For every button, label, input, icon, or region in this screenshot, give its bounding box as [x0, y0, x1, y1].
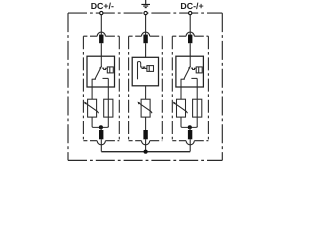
ground (earth symbol above middle terminal) [141, 0, 150, 8]
crossover arc bottom branch 2 [142, 141, 150, 145]
disconnector F2.1 (thermal disconnect, branch 2 top) [143, 35, 147, 44]
enclosure right border (dash-dot) [221, 13, 223, 160]
linkage S1 to indicator [102, 68, 107, 69]
module box 2 middle branch (dash-dot) [129, 36, 163, 141]
wire branch 2 to bus [145, 139, 147, 151]
switch S1 contacts and blade inside U1 [92, 56, 109, 79]
enclosure left border (dash-dot) [67, 13, 69, 160]
svg-text:DC+/-: DC+/- [91, 1, 114, 11]
wire switch to varistor branch 2 [145, 86, 147, 99]
junction node branch 1 [99, 125, 103, 129]
fuse F3 (branch 3 backup element) [193, 78, 202, 127]
linkage S2 to indicator [141, 65, 147, 69]
switch box U3 (branch 3 disconnecting device) [176, 56, 204, 87]
crossover arc top branch 3 [186, 32, 194, 36]
wire disconnector to switch box 2 [145, 43, 147, 57]
wire terminal X1 to branch 1 [100, 15, 102, 35]
wire terminal X2 to branch 2 [145, 15, 147, 35]
enclosure top border (dash-dot) [68, 12, 222, 14]
bus wire (common bottom connection) [101, 151, 190, 153]
varistor RV2 arrow head [138, 102, 141, 105]
varistor RV1 arrow head [84, 102, 87, 105]
wire disconnector to switch box 3 [189, 43, 191, 56]
junction node branch 3 [188, 125, 192, 129]
wire switch to varistor branch 3 [180, 79, 182, 99]
module box 1 left branch (dash-dot) [83, 36, 119, 141]
wire varistor to disconnector branch 2 [145, 117, 147, 130]
indicator P1 (status indication contact) [107, 67, 113, 73]
crossover arc bottom branch 3 [186, 141, 194, 145]
switch box U1 (branch 1 disconnecting device) [87, 56, 115, 87]
disconnector F1.2 (branch 1 bottom) [99, 130, 103, 139]
enclosure bottom border (dash-dot) [68, 159, 222, 161]
terminal X2 earth [144, 11, 147, 14]
crossover arc bottom branch 1 [97, 141, 105, 145]
disconnector F1.1 (thermal disconnect, branch 1 top) [99, 35, 103, 44]
terminal X1 DC+/- [100, 11, 103, 14]
terminal X3 DC-/+ [189, 11, 192, 14]
wire disconnector to switch box 1 [100, 43, 102, 56]
disconnector F2.2 (branch 2 bottom) [143, 130, 147, 139]
wire branch 3 to bus [189, 139, 191, 151]
wire terminal X3 to branch 3 [189, 15, 191, 35]
varistor RV2 (branch 2) [138, 99, 152, 117]
switch S2 blade inside U2 [138, 61, 141, 79]
varistor RV3 (branch 3) [174, 99, 188, 117]
svg-text:DC-/+: DC-/+ [180, 1, 203, 11]
disconnector F3.1 (thermal disconnect, branch 3 top) [188, 35, 192, 44]
junction node bus middle [144, 150, 148, 154]
module box 3 right branch (dash-dot) [172, 36, 208, 141]
fuse F1 (branch 1 backup element) [104, 78, 113, 127]
wire join bar branch 1 [92, 117, 108, 127]
indicator P3 (status indication contact) [196, 67, 202, 73]
switch box U2 (branch 2 disconnecting device) [132, 57, 158, 86]
varistor RV1 (branch 1) [85, 99, 99, 117]
indicator P2 (status indication contact) [147, 66, 154, 72]
wire join bar branch 3 [181, 117, 197, 127]
wire branch 1 to bus [100, 139, 102, 151]
varistor RV3 arrow head [173, 102, 176, 105]
wire junction to disconnector branch 3 [189, 127, 191, 130]
disconnector F3.2 (branch 3 bottom) [188, 130, 192, 139]
switch S3 contacts and blade inside U3 [181, 56, 198, 79]
linkage S3 to indicator [191, 68, 196, 69]
wire junction to disconnector branch 1 [100, 127, 102, 130]
wire switch to varistor branch 1 [91, 79, 93, 99]
crossover arc top branch 1 [97, 32, 105, 36]
crossover arc top branch 2 [142, 32, 150, 36]
